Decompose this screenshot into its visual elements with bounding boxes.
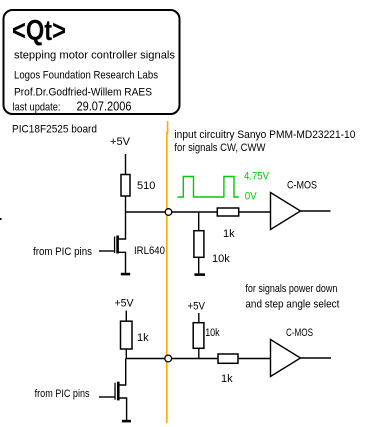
wire lower node rail <box>126 358 270 360</box>
svg-text:+5V: +5V <box>115 298 135 310</box>
svg-text:+5V: +5V <box>110 136 131 148</box>
svg-text:<Qt>: <Qt> <box>12 15 66 47</box>
wire R 1k to node rail <box>125 349 127 359</box>
svg-text:Logos Foundation Research Labs: Logos Foundation Research Labs <box>14 69 158 81</box>
svg-text:C-MOS: C-MOS <box>287 180 317 192</box>
wire stub at left edge <box>0 218 2 220</box>
wire +5V to R 10k lower <box>198 313 200 323</box>
svg-text:last update:: last update: <box>13 102 61 114</box>
svg-text:IRL640: IRL640 <box>134 245 165 257</box>
svg-text:for signals CW, CWW: for signals CW, CWW <box>174 142 266 154</box>
wire upper node rail <box>126 211 271 213</box>
svg-text:C-MOS: C-MOS <box>286 327 313 339</box>
resistor 1k upper <box>217 208 238 216</box>
svg-text:0V: 0V <box>245 191 258 203</box>
wire R 10k to node rail <box>198 348 200 358</box>
buffer U1 C-MOS upper <box>271 193 301 230</box>
svg-text:and step angle select: and step angle select <box>245 299 339 311</box>
svg-text:PIC18F2525 board: PIC18F2525 board <box>12 124 97 136</box>
wire +5V to R 510 <box>125 154 127 175</box>
ground 10k upper <box>194 273 205 276</box>
transistor Q2 <box>99 359 127 421</box>
svg-text:Prof.Dr.Godfried-Willem RAES: Prof.Dr.Godfried-Willem RAES <box>14 86 152 98</box>
resistor 1k lower left <box>121 321 133 349</box>
wire U2 output <box>301 357 332 359</box>
svg-text:from PIC pins: from PIC pins <box>33 246 92 258</box>
buffer U2 C-MOS lower <box>271 340 301 377</box>
wire R 510 to node <box>125 196 127 212</box>
svg-text:stepping motor controller sign: stepping motor controller signals <box>14 50 176 62</box>
svg-text:1k: 1k <box>221 373 233 385</box>
ground Q1 source <box>121 273 130 276</box>
svg-text:1k: 1k <box>223 228 235 240</box>
svg-text:4.75V: 4.75V <box>244 171 270 183</box>
svg-text:10k: 10k <box>205 327 220 339</box>
svg-text:1k: 1k <box>137 332 149 344</box>
node B lower <box>165 355 172 362</box>
title box <box>4 10 180 114</box>
resistor 1k lower horizontal <box>218 354 238 363</box>
resistor 10k lower <box>193 323 204 349</box>
resistor 510 <box>121 175 130 197</box>
svg-text:510: 510 <box>137 180 155 192</box>
orange board boundary line <box>166 121 169 423</box>
svg-text:29.07.2006: 29.07.2006 <box>77 100 132 114</box>
svg-text:+5V: +5V <box>188 301 206 313</box>
wire +5V to R 1k lower <box>125 311 127 322</box>
wire U1 output <box>301 210 331 212</box>
resistor 10k upper <box>194 212 204 273</box>
transistor Q1 IRL640 <box>99 212 126 273</box>
svg-text:input circuitry Sanyo PMM-MD23: input circuitry Sanyo PMM-MD23221-10 <box>174 129 355 141</box>
node A upper <box>165 209 172 216</box>
svg-text:10k: 10k <box>212 253 230 265</box>
signal waveform CW/CCW <box>178 177 239 198</box>
ground Q2 source <box>122 420 131 423</box>
svg-text:from PIC pins: from PIC pins <box>35 388 90 400</box>
svg-text:for signals power down: for signals power down <box>245 283 337 295</box>
